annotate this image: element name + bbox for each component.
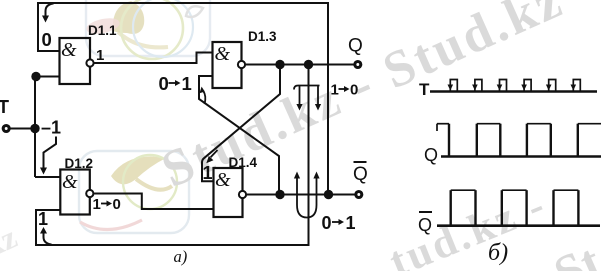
timing Q-bar waveform [451,190,579,226]
svg-text:1: 1 [38,209,48,229]
wire T input to junction [10,128,35,130]
node Q-bar label [353,162,368,185]
svg-text:&: & [215,169,231,191]
timing diagram label Q-bar [418,212,432,235]
node Q-bar output terminal [356,192,362,198]
svg-text:0: 0 [42,29,52,50]
label 0->1 near D1.3 input [159,73,192,94]
wire cross-coupling from Q node to D1.4 upper input [202,65,280,182]
svg-text:Q: Q [353,164,368,185]
arrow annotation T to D1.2 [40,137,56,175]
svg-text:D1.2: D1.2 [65,156,94,171]
wire D1.1 output to D1.3 upper input [94,53,213,64]
wire feedback from Q-bar output up over top to D1.1 input [38,3,328,195]
timing Q waveform [437,124,601,157]
junction dot Q-bar node feedback [324,190,333,199]
svg-text:–1: –1 [41,118,61,138]
svg-text:0: 0 [113,196,121,213]
svg-text:&: & [62,171,78,193]
junction dot T input [30,124,39,133]
arrow annotation bottom-left (signal into D1.2 input 1) [40,227,52,245]
gate D1.4 [214,168,247,217]
wire T vertical branch [34,77,36,178]
svg-text:Q: Q [348,36,363,57]
wire feedback from Q output down under bottom to D1.2 input [36,65,309,246]
svg-text:D1.4: D1.4 [229,155,258,170]
wire Q-bar output line [246,194,356,196]
node T input terminal [3,126,9,132]
svg-text:1: 1 [93,196,101,213]
wire to D1.1 lower input [35,76,60,78]
svg-text:1: 1 [96,47,104,64]
svg-text:&: & [215,43,231,65]
svg-text:б): б) [488,240,508,266]
wire D1.2 output to D1.4 lower input [93,194,213,210]
wire D1.3 lower input with cross-coupling from Q-bar node [199,76,279,195]
svg-text:1: 1 [203,163,213,183]
timing T pulses with falling-edge arrows [448,80,581,92]
arrow annotation on cross wire to D1.4 [206,150,217,163]
arrow annotation double down-arrows below Q wire [294,86,321,111]
svg-text:Q: Q [424,145,438,165]
svg-text:&: & [61,39,77,61]
timing Q-bar baseline [437,224,600,227]
svg-text:а): а) [174,247,188,266]
arrow annotation double up-arrows through Q-bar wire [294,172,320,218]
svg-text:D1.3: D1.3 [248,29,277,44]
junction dot Q node 1 [275,60,284,69]
svg-text:D1.1: D1.1 [88,23,117,38]
timing Q baseline [441,155,601,158]
gate D1.1 [60,38,94,84]
svg-text:T: T [419,80,430,99]
junction dot Q-bar node 1 [275,190,284,199]
svg-text:1: 1 [182,73,192,94]
svg-text:1: 1 [331,82,339,99]
timing T baseline [430,90,597,93]
junction dot Q node 2 [304,60,313,69]
node Q output terminal [355,62,361,68]
arrow annotation curved up at D1.3 input [199,87,205,104]
gate D1.2 [60,170,93,215]
svg-text:0: 0 [350,82,358,99]
label 1->0 near Q output [331,82,359,99]
junction dot on T line upper [31,72,40,81]
svg-text:Q: Q [418,215,432,235]
svg-text:0: 0 [159,73,169,94]
arrow annotation top-left (signal into D1.1 input 0) [42,4,54,23]
svg-text:T: T [0,97,9,117]
svg-text:1: 1 [346,213,356,233]
label 0->1 near Q-bar output [322,213,356,233]
wire Q output line [245,64,355,66]
gate D1.3 [213,42,246,88]
label 1->0 at D1.2 output [93,196,121,213]
svg-text:0: 0 [322,213,332,233]
wire to D1.2 upper input [35,176,60,178]
